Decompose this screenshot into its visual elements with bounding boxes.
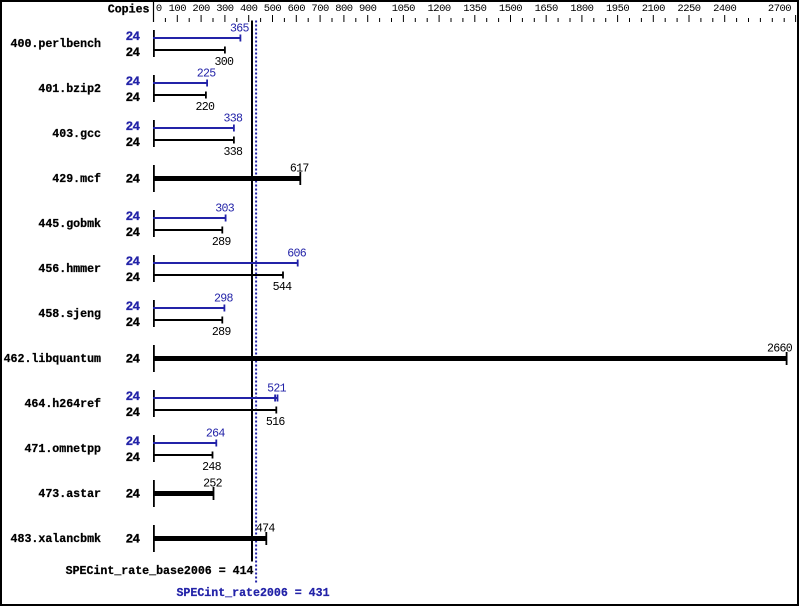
svg-text:521: 521: [267, 383, 287, 396]
group 403.gcc: [52, 113, 243, 159]
svg-text:458.sjeng: 458.sjeng: [38, 308, 101, 321]
svg-text:338: 338: [224, 113, 244, 126]
svg-text:473.astar: 473.astar: [38, 488, 101, 501]
group 473.astar: [38, 477, 222, 507]
svg-text:1650: 1650: [535, 3, 558, 15]
svg-text:298: 298: [214, 293, 234, 306]
svg-text:464.h264ref: 464.h264ref: [24, 398, 101, 411]
svg-text:700: 700: [311, 3, 329, 15]
svg-text:483.xalancbmk: 483.xalancbmk: [11, 533, 101, 546]
svg-text:SPECint_rate2006 = 431: SPECint_rate2006 = 431: [176, 587, 329, 600]
group 400.perlbench: [11, 23, 250, 69]
svg-text:338: 338: [224, 146, 244, 159]
svg-text:24: 24: [126, 226, 141, 240]
svg-text:300: 300: [215, 56, 235, 69]
svg-text:1200: 1200: [427, 3, 450, 15]
svg-text:24: 24: [126, 390, 141, 404]
svg-text:289: 289: [212, 326, 232, 339]
group 471.omnetpp: [24, 428, 225, 474]
svg-text:445.gobmk: 445.gobmk: [38, 218, 101, 231]
svg-text:264: 264: [206, 428, 226, 441]
svg-text:0: 0: [156, 3, 162, 15]
svg-text:617: 617: [290, 162, 310, 175]
svg-text:24: 24: [126, 172, 141, 186]
svg-text:516: 516: [266, 416, 286, 429]
svg-text:600: 600: [288, 3, 306, 15]
svg-text:24: 24: [126, 451, 141, 465]
svg-text:401.bzip2: 401.bzip2: [38, 83, 101, 96]
svg-text:24: 24: [126, 255, 141, 269]
svg-text:Copies: Copies: [108, 4, 150, 17]
svg-text:24: 24: [126, 435, 141, 449]
svg-text:303: 303: [215, 203, 235, 216]
svg-text:365: 365: [230, 23, 250, 36]
group 483.xalancbmk: [11, 522, 276, 552]
svg-text:248: 248: [202, 461, 222, 474]
svg-text:24: 24: [126, 316, 141, 330]
svg-text:500: 500: [264, 3, 282, 15]
svg-text:403.gcc: 403.gcc: [52, 128, 101, 141]
svg-text:200: 200: [192, 3, 210, 15]
group 464.h264ref: [24, 383, 286, 429]
svg-text:429.mcf: 429.mcf: [52, 173, 101, 186]
base median line 414: [251, 21, 253, 562]
svg-text:24: 24: [126, 532, 141, 546]
svg-text:300: 300: [216, 3, 234, 15]
svg-text:24: 24: [126, 487, 141, 501]
group 462.libquantum: [4, 342, 793, 372]
svg-text:24: 24: [126, 46, 141, 60]
svg-text:24: 24: [126, 30, 141, 44]
svg-text:400.perlbench: 400.perlbench: [11, 38, 101, 51]
svg-text:544: 544: [273, 281, 293, 294]
svg-text:225: 225: [197, 68, 217, 81]
svg-text:24: 24: [126, 75, 141, 89]
svg-text:24: 24: [126, 120, 141, 134]
group 445.gobmk: [38, 203, 234, 249]
svg-text:606: 606: [287, 248, 307, 261]
svg-text:456.hmmer: 456.hmmer: [38, 263, 101, 276]
svg-text:1350: 1350: [463, 3, 486, 15]
svg-text:SPECint_rate_base2006 = 414: SPECint_rate_base2006 = 414: [66, 565, 254, 578]
svg-text:800: 800: [335, 3, 353, 15]
svg-text:2100: 2100: [642, 3, 665, 15]
axis ticks: [165, 15, 795, 22]
svg-text:24: 24: [126, 210, 141, 224]
svg-text:462.libquantum: 462.libquantum: [4, 353, 101, 366]
svg-text:2400: 2400: [713, 3, 736, 15]
svg-text:2660: 2660: [767, 342, 793, 355]
svg-text:400: 400: [240, 3, 258, 15]
svg-text:1500: 1500: [499, 3, 522, 15]
svg-text:2700: 2700: [768, 3, 791, 15]
svg-text:471.omnetpp: 471.omnetpp: [24, 443, 101, 456]
svg-text:1050: 1050: [392, 3, 415, 15]
svg-text:252: 252: [203, 477, 223, 490]
peak median dotted line 431: [255, 21, 257, 585]
svg-text:474: 474: [256, 522, 276, 535]
svg-text:900: 900: [359, 3, 377, 15]
svg-text:24: 24: [126, 406, 141, 420]
group 429.mcf: [52, 162, 309, 192]
group 456.hmmer: [38, 248, 306, 294]
svg-text:24: 24: [126, 271, 141, 285]
svg-text:24: 24: [126, 136, 141, 150]
svg-text:2250: 2250: [677, 3, 700, 15]
svg-text:100: 100: [169, 3, 187, 15]
svg-text:289: 289: [212, 236, 232, 249]
svg-text:24: 24: [126, 91, 141, 105]
svg-text:24: 24: [126, 352, 141, 366]
svg-text:1950: 1950: [606, 3, 629, 15]
group 458.sjeng: [38, 293, 233, 339]
svg-text:24: 24: [126, 300, 141, 314]
svg-text:1800: 1800: [570, 3, 593, 15]
svg-text:220: 220: [196, 101, 216, 114]
group 401.bzip2: [38, 68, 216, 114]
